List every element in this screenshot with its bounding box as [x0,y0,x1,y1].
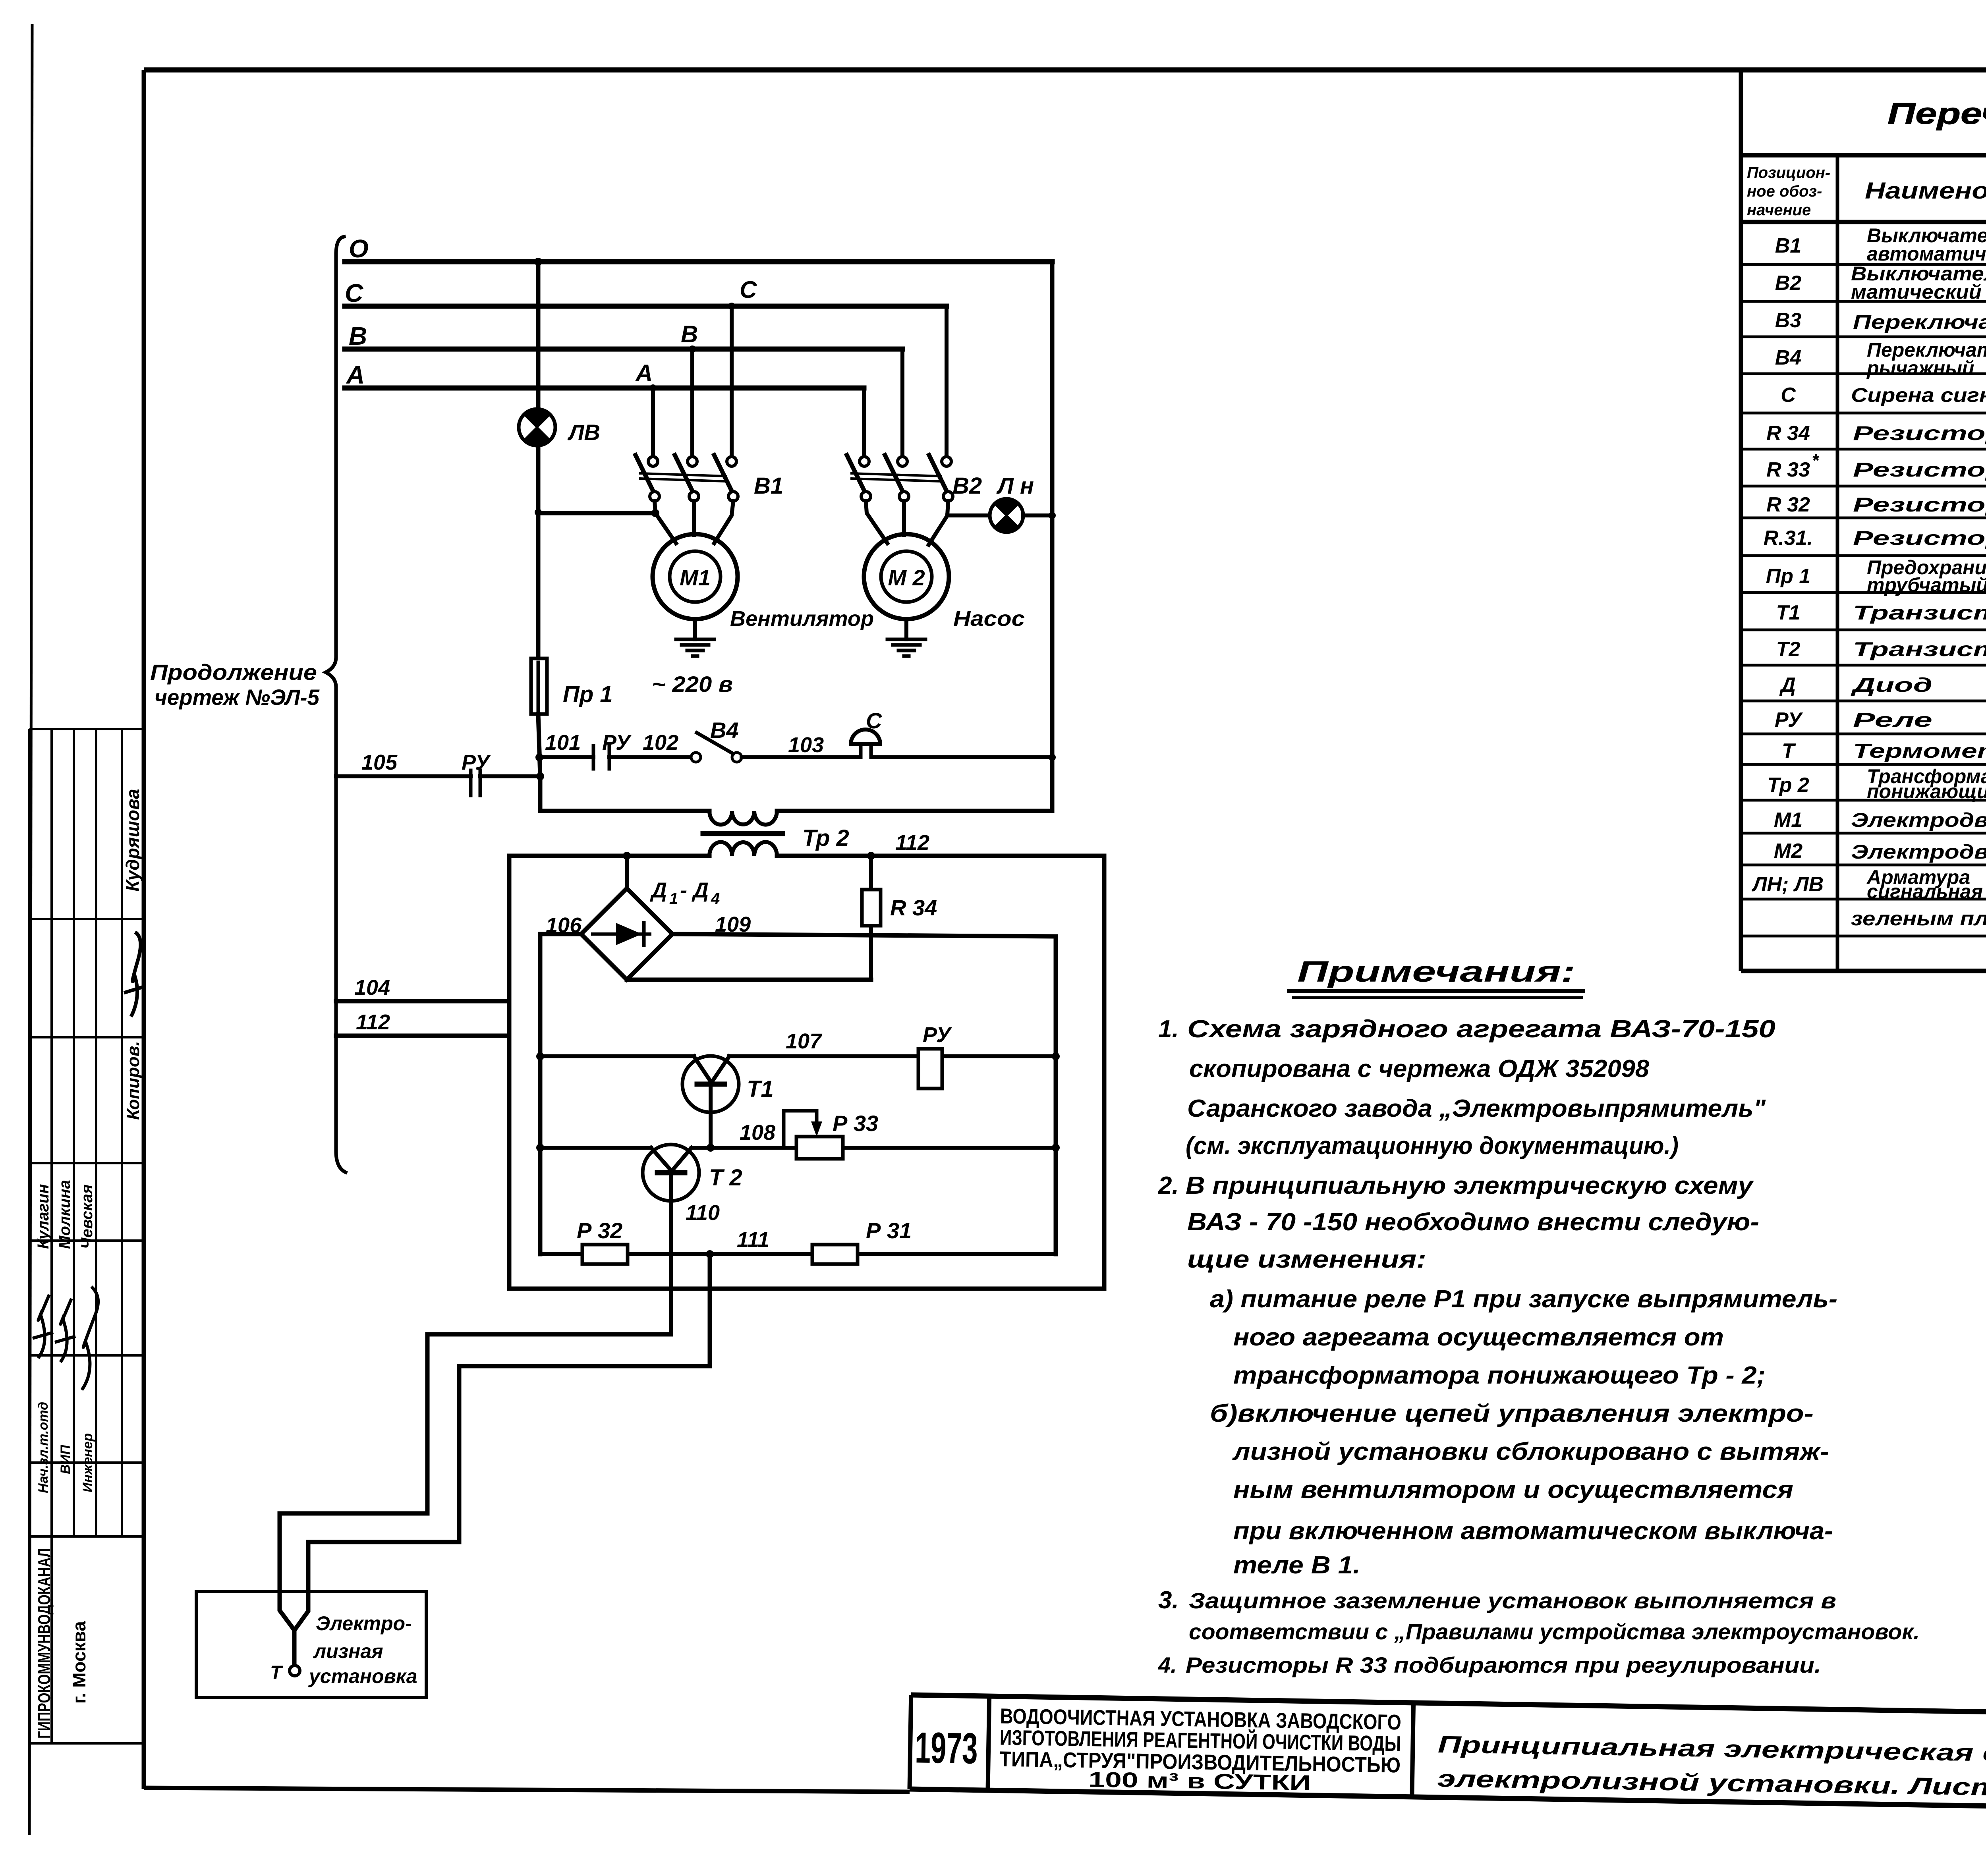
wire 110 from T2 [669,1173,673,1334]
svg-text:Р 32: Р 32 [577,1218,622,1243]
label B2 [952,473,982,499]
label 112 stub [356,1010,390,1034]
svg-text:ВАЗ - 70 -150 необходимо вн: ВАЗ - 70 -150 необходимо внести следую- [1187,1208,1759,1236]
svg-text:О: О [349,234,369,263]
label electrolysis [308,1612,417,1687]
node label A [346,361,365,389]
svg-text:Электродвигатель: Электродвигатель [1851,841,1986,863]
svg-text:Д: Д [1779,674,1796,697]
svg-text:Тр 2: Тр 2 [802,825,849,851]
wire row 101 [539,755,593,759]
node label O [349,234,369,263]
svg-text:Копиров.: Копиров. [124,1041,143,1120]
svg-text:М2: М2 [1774,840,1802,863]
label RU [602,731,632,755]
svg-text:*: * [1812,451,1819,470]
resistor R31 [812,1245,858,1264]
svg-text:Продолжение: Продолжение [150,660,317,685]
svg-text:1973: 1973 [915,1723,978,1773]
PARTS TABLE GRID [1741,70,1986,971]
svg-text:а) питание реле Р1 при запус: а) питание реле Р1 при запуске выпрямите… [1210,1285,1837,1313]
svg-text:РУ: РУ [923,1023,952,1047]
svg-text:Тр 2: Тр 2 [1767,774,1809,797]
svg-text:105: 105 [361,751,398,774]
svg-text:(см. эксплуатационную докуме: (см. эксплуатационную документацию.) [1186,1132,1679,1160]
svg-text:Нач.зл.т.отд: Нач.зл.т.отд [36,1402,51,1493]
label T1 [747,1076,774,1102]
svg-text:111: 111 [737,1228,769,1252]
electrolysis unit box [196,1592,426,1697]
fuse Pr1 [531,658,547,714]
svg-text:трансформатора понижающего: трансформатора понижающего Тр - 2; [1233,1362,1766,1389]
svg-text:В1: В1 [1775,234,1801,257]
label 108 [740,1121,775,1145]
svg-text:ГИПРОКОММУНВОДОКАНАЛ: ГИПРОКОММУНВОДОКАНАЛ [35,1548,54,1739]
svg-text:Саранского завода „Электровып: Саранского завода „Электровыпрямитель" [1187,1095,1766,1122]
svg-text:4.: 4. [1158,1652,1177,1677]
svg-text:Термометр: Термометр [1853,740,1986,762]
resistor R32 [582,1245,628,1264]
svg-text:установка: установка [308,1665,417,1687]
svg-text:Транзистор: Транзистор [1853,638,1986,660]
label Ln [996,473,1034,499]
svg-text:автоматический: автоматический [1867,243,1986,265]
wire row 108 [536,1144,1060,1152]
svg-text:ным вентилятором и осуществ: ным вентилятором и осуществляется [1233,1476,1793,1504]
svg-text:М 2: М 2 [888,565,925,590]
svg-text:Вентилятор: Вентилятор [730,607,874,631]
svg-text:Пр 1: Пр 1 [563,681,613,707]
svg-text:Наименование: Наименование [1865,178,1986,204]
svg-text:теле В 1.: теле В 1. [1233,1552,1360,1579]
label C siren [866,708,883,733]
node label C at drop [740,276,757,303]
SIGTABLE [29,729,144,1743]
svg-text:110: 110 [686,1201,720,1225]
svg-text:Т1: Т1 [1776,601,1801,624]
svg-text:начение: начение [1747,201,1811,219]
label R31 [866,1218,912,1243]
label 220v [652,672,733,697]
svg-text:А: А [346,361,365,389]
svg-text:Кулагин: Кулагин [35,1184,52,1249]
transformer Tr2 primary [703,811,782,834]
node dot bridge top [623,852,631,890]
svg-text:В1: В1 [754,473,783,499]
wire fuse to junctions [535,714,709,811]
bus C [345,304,947,309]
label 107 [786,1029,823,1053]
transistor T1 [682,1056,739,1152]
svg-text:Д: Д [650,878,667,902]
label 105 [361,751,398,774]
motor M2 [864,534,949,619]
svg-text:В2: В2 [952,473,982,499]
label 101 [545,731,581,755]
svg-text:В принципиальную электрическу: В принципиальную электрическую схему [1186,1172,1754,1199]
breaker B2 [847,455,953,501]
svg-text:рычажный: рычажный [1866,357,1974,379]
wire B2 to motor M2 [866,501,990,545]
wire 111 junction to electrolysis [296,1254,710,1628]
svg-text:ЛН; ЛВ: ЛН; ЛВ [1751,873,1824,896]
svg-text:Т 2: Т 2 [709,1165,742,1191]
label Ventilator [730,607,874,631]
svg-text:Транзистор: Транзистор [1853,602,1986,624]
svg-text:Позицион-: Позицион- [1747,164,1830,181]
svg-text:Р 31: Р 31 [866,1218,912,1243]
svg-text:матический АП50-3МТ: матический АП50-3МТ [1851,281,1986,303]
svg-text:В3: В3 [1775,309,1802,332]
svg-text:102: 102 [643,731,678,755]
svg-text:R 34: R 34 [890,895,937,920]
wire B corner to B2 [900,349,904,458]
label RU coil [923,1023,952,1047]
wire 104 stub [336,999,509,1004]
svg-text:Резистор: Резистор [1853,459,1986,481]
svg-text:3.: 3. [1158,1586,1179,1614]
svg-text:Инженер: Инженер [80,1433,95,1492]
svg-text:1.: 1. [1158,1015,1179,1043]
ground under M1 [676,619,714,656]
svg-text:Электро-: Электро- [316,1612,412,1635]
breaker B1 [636,455,738,501]
ground under M2 [887,619,925,656]
bus B [345,347,902,352]
node label C [345,279,363,307]
wire C corner to B2 [945,306,949,458]
svg-text:В: В [681,321,698,347]
svg-text:г. Москва: г. Москва [69,1621,89,1704]
svg-text:В2: В2 [1775,272,1802,295]
svg-text:R 32: R 32 [1766,493,1810,516]
label 103 [788,733,824,757]
svg-text:Р 33: Р 33 [833,1111,878,1136]
lamp LV [519,258,555,446]
svg-text:ВИП: ВИП [58,1444,73,1474]
wire A corner to B2 [862,388,866,458]
svg-text:С: С [740,276,757,303]
svg-text:R 33: R 33 [1766,458,1810,481]
label T terminal [270,1662,283,1683]
svg-text:скопирована с чертежа ОДЖ: скопирована с чертежа ОДЖ 352098 [1189,1055,1650,1083]
svg-text:ное обоз-: ное обоз- [1747,183,1822,200]
transistor T2 [643,1145,699,1201]
wire 106 from bridge left [540,934,581,1254]
svg-text:Сирена сигнальная: Сирена сигнальная [1851,384,1986,406]
switch B4 [691,733,859,762]
svg-text:Переключатель: Переключатель [1853,311,1986,333]
wire 112 stub [336,1034,509,1038]
svg-text:R.31.: R.31. [1764,527,1813,550]
svg-text:А: А [635,360,653,386]
label R33 [833,1111,878,1136]
svg-text:2.: 2. [1158,1172,1179,1199]
svg-text:1: 1 [669,890,678,907]
label T2 [709,1165,742,1191]
svg-text:Резистор: Резистор [1853,422,1986,444]
svg-text:РУ: РУ [462,751,491,774]
node label B [349,322,367,350]
wire right riser from bus O [777,262,1056,811]
svg-text:112: 112 [356,1010,390,1034]
svg-text:соответствии с „Правилами ус: соответствии с „Правилами устройства эле… [1189,1619,1920,1644]
node label A at drop [635,360,653,386]
svg-text:104: 104 [354,976,390,1000]
svg-text:112: 112 [895,831,929,855]
svg-text:Молкина: Молкина [56,1180,73,1249]
wire 109 from bridge right [672,934,1056,1254]
label LV [567,420,600,445]
svg-text:4: 4 [711,890,720,907]
svg-text:трубчатый: трубчатый [1867,574,1986,596]
svg-text:РУ: РУ [1775,708,1803,731]
svg-text:лизная: лизная [313,1640,383,1662]
svg-text:Схема зарядного агрегата ВА: Схема зарядного агрегата ВАЗ-70-150 [1187,1015,1775,1043]
svg-text:Реле: Реле [1853,709,1932,731]
label continuation [150,660,320,710]
svg-text:понижающий: понижающий [1867,780,1986,803]
wire B1 to motor M1 [655,501,733,543]
label 109 [715,913,751,936]
resistor R34 [862,856,881,980]
svg-text:108: 108 [740,1121,775,1145]
wire row 107 [536,1052,1060,1060]
label R34 [890,895,937,920]
svg-text:Электродвигатель: Электродвигатель [1851,809,1986,831]
svg-text:Примечания:: Примечания: [1297,955,1575,988]
label 106 [546,913,582,937]
bridge rectifier D1-D4 [581,888,672,980]
wire bridge bottom to R34 [627,978,871,982]
svg-text:Т2: Т2 [1776,638,1801,661]
svg-text:Чевская: Чевская [78,1184,96,1249]
svg-text:ного агрегата осуществляется: ного агрегата осуществляется от [1233,1324,1724,1351]
svg-text:М1: М1 [1774,809,1802,832]
svg-text:С: С [866,708,883,733]
bus O [345,259,1052,264]
lamp Ln [990,499,1052,532]
resistor R33 [784,1111,843,1159]
svg-text:Резистор: Резистор [1853,527,1986,549]
svg-text:103: 103 [788,733,824,757]
label 102 [643,731,678,755]
label 110 [686,1201,720,1225]
svg-text:С: С [1781,384,1796,407]
label R32 [577,1218,622,1243]
label Pr1 [563,681,613,707]
wire B drop to B1 [689,345,696,458]
svg-text:ЛВ: ЛВ [567,420,600,445]
node dot R34 top [867,852,875,860]
svg-text:Резисторы R 33 подбираются: Резисторы R 33 подбираются при регулиров… [1186,1652,1821,1677]
node label B at drop [681,321,698,347]
relay contact RU in row 101 [593,746,692,769]
svg-text:Т: Т [1782,739,1796,762]
wire row 105 [336,770,540,795]
wire T2 base to electrolysis [280,1334,671,1665]
svg-text:Насос: Насос [953,607,1025,631]
svg-text:Защитное заземление установо: Защитное заземление установок выполняетс… [1189,1588,1836,1613]
svg-text:чертеж №ЭЛ-5: чертеж №ЭЛ-5 [155,685,320,710]
svg-text:Т1: Т1 [747,1076,774,1102]
svg-text:В: В [349,322,367,350]
label Nasos [953,607,1025,631]
motor M1 [653,534,738,619]
wire row 111 [540,1250,1056,1258]
continuation brace [326,237,346,1172]
svg-text:М1: М1 [680,565,711,590]
svg-text:107: 107 [786,1029,823,1053]
svg-text:~ 220 в: ~ 220 в [652,672,733,697]
wire C drop to B1 [728,303,735,458]
svg-text:при включенном автоматическо: при включенном автоматическом выключа- [1233,1517,1833,1545]
wire LV down and to B1 [535,445,659,658]
svg-text:Т: Т [270,1662,283,1683]
transformer Tr2 secondary [509,842,1103,856]
label 112 right [895,831,929,855]
svg-text:В4: В4 [710,718,739,743]
svg-text:- Д: - Д [680,878,709,902]
label D1-D4 [650,878,720,907]
siren C [851,730,1052,757]
svg-text:Кудряшова: Кудряшова [122,789,143,892]
svg-text:Перечень элементов.: Перечень элементов. [1887,97,1986,131]
svg-text:R 34: R 34 [1766,422,1810,445]
svg-text:В4: В4 [1775,346,1802,369]
wire left loop vertical [509,856,1104,1289]
svg-text:лизной установки сблокирован: лизной установки сблокировано с вытяж- [1232,1438,1829,1465]
svg-text:101: 101 [545,731,581,755]
svg-text:РУ: РУ [602,731,632,755]
svg-text:Л н: Л н [996,473,1034,499]
svg-text:б)включение цепей управления: б)включение цепей управления электро- [1210,1400,1814,1427]
relay coil RU [918,1049,942,1089]
label B1 [754,473,783,499]
label B4 [710,718,739,743]
svg-text:С: С [345,279,363,307]
svg-text:сигнальная с: сигнальная с [1867,880,1986,903]
label 111 [737,1228,769,1252]
svg-text:зеленым плафоном: зеленым плафоном [1851,907,1986,930]
label RU at 105 [462,751,491,774]
wire A drop to B1 [649,384,657,458]
bus A [345,386,864,391]
label 104 [354,976,390,1000]
svg-text:Диод: Диод [1851,674,1932,696]
svg-text:Резистор: Резистор [1853,494,1986,516]
svg-text:Пр 1: Пр 1 [1766,565,1811,588]
label Tr2 [802,825,849,851]
svg-text:100 м³ в СУТКИ: 100 м³ в СУТКИ [1088,1768,1311,1795]
svg-text:щие изменения:: щие изменения: [1187,1246,1426,1273]
